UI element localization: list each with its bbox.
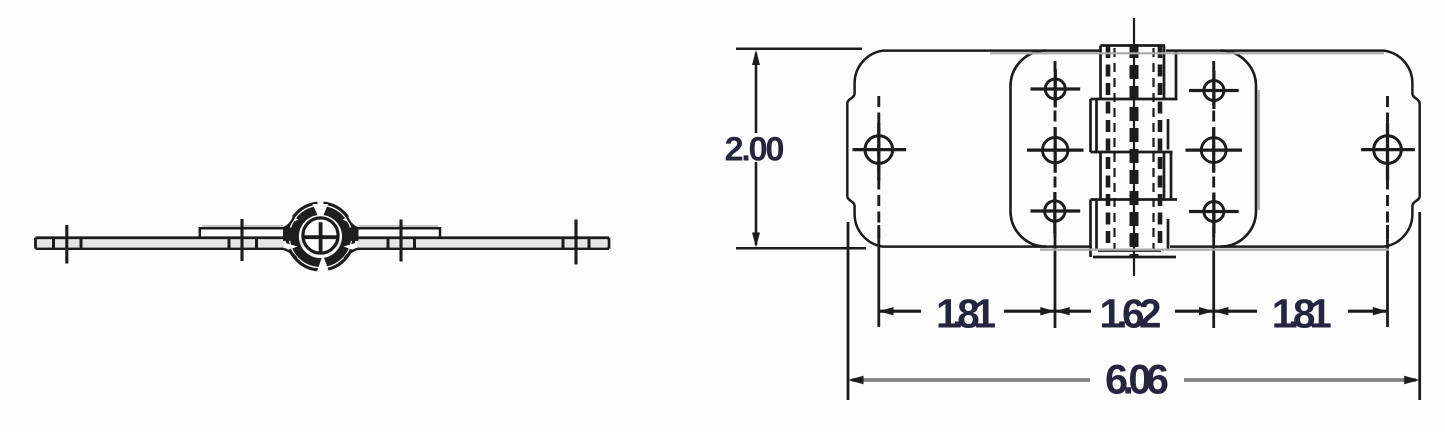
pin centerline extension below (1133, 257, 1135, 274)
left outer hole (865, 136, 893, 164)
svg-text:1.81: 1.81 (936, 291, 996, 337)
barrel pin bore circle (303, 218, 338, 253)
plan view inner leaf left edge (1010, 51, 1046, 247)
dimension 2.00 arrows (752, 50, 760, 248)
dimension 6.06 arrows (848, 376, 1420, 384)
side view upper leaf edge (200, 226, 440, 238)
dimension 1.81 right line (1214, 310, 1388, 313)
right outer hole centerline dashed (1386, 96, 1389, 242)
dimension 2.00 extension lines (736, 49, 866, 249)
dimension 6.06 line (852, 378, 1416, 382)
inner right bottom hole (1204, 202, 1224, 222)
svg-text:1.81: 1.81 (1272, 291, 1332, 337)
side view hole edge lines (54, 239, 590, 249)
barrel white notch bottom (317, 255, 329, 272)
barrel outer circle (287, 203, 354, 270)
side view lower leaf bar outline (36, 238, 610, 249)
dimension 2.00 line (755, 53, 758, 245)
barrel white wedge lower-left (284, 243, 298, 252)
barrel dark web right (347, 228, 359, 241)
svg-text:6.06: 6.06 (1105, 356, 1169, 403)
plan view outer plate outline (847, 51, 1419, 247)
side view hole centerline ticks (67, 219, 576, 265)
barrel throat connection lines (282, 216, 359, 259)
right outer hole (1374, 136, 1402, 164)
plan view inner leaf right edge (1221, 51, 1257, 247)
hinge pin thick dashed (hidden pin) (1130, 44, 1139, 257)
dimension 1.81 left line (879, 310, 1055, 313)
barrel white wedge upper-right (343, 212, 358, 227)
hinge pin centerline thin (1133, 18, 1135, 276)
barrel white wedge lower-right (344, 243, 358, 252)
inner right column centerline dashed (1212, 61, 1215, 240)
barrel white notch top (313, 204, 329, 222)
inner left top hole (1045, 79, 1065, 99)
barrel crosshair (304, 222, 338, 251)
left outer hole crosshair (853, 123, 907, 180)
left outer hole centerline dashed (877, 96, 880, 242)
dimension row1 extension lines (879, 225, 1388, 328)
barrel dark web left (283, 228, 295, 241)
knuckle hidden bore dashed lines (1108, 46, 1160, 250)
side view bar interior shading (37, 240, 607, 247)
svg-text:1.62: 1.62 (1100, 291, 1162, 337)
dimension 1.62 line (1055, 310, 1214, 313)
right outer hole crosshair (1361, 123, 1415, 180)
barrel ring (curled leaves cross-section) (290, 206, 351, 267)
inner right top hole (1204, 81, 1224, 101)
inner left bottom hole (1045, 201, 1065, 221)
barrel white wedge upper-left (284, 212, 299, 227)
svg-text:2.00: 2.00 (725, 131, 785, 169)
inner left column centerline dashed (1054, 61, 1057, 240)
inner right middle hole (1201, 138, 1226, 163)
dimension 6.06 extension lines (848, 212, 1420, 400)
gray shadow lines (990, 53, 1389, 249)
knuckle band boxes (1091, 46, 1178, 258)
inner left middle hole (1043, 137, 1068, 162)
